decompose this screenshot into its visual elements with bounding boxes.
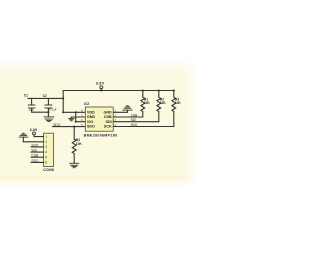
svg-text:SDI: SDI	[106, 120, 112, 124]
svg-text:1: 1	[45, 135, 47, 139]
power symbol 3.3V P1	[96, 81, 105, 91]
wire connector pin4	[31, 151, 44, 153]
power symbol 3.3V P2	[30, 128, 38, 137]
junction VDD tie	[75, 111, 77, 113]
junction rail R2	[158, 89, 160, 91]
wire connector pin5	[31, 156, 44, 158]
junction VIO tie	[75, 121, 77, 123]
wire GND right	[113, 111, 127, 113]
svg-text:C1: C1	[24, 94, 28, 98]
svg-text:SDO: SDO	[53, 123, 61, 127]
svg-text:4: 4	[45, 150, 47, 154]
junction rail/cap-rail	[62, 97, 64, 99]
svg-text:10K: 10K	[175, 101, 182, 105]
wire connector pin2	[23, 141, 43, 143]
svg-text:SDO: SDO	[87, 125, 95, 129]
wire 3.3V rail	[63, 90, 174, 92]
junction SDO/R4	[73, 126, 75, 128]
resistor R4	[72, 127, 82, 164]
svg-text:GND: GND	[87, 115, 96, 119]
wire connector pin1	[34, 136, 44, 138]
svg-text:CSB: CSB	[131, 113, 139, 117]
wire VIO	[76, 121, 86, 123]
svg-text:SCK: SCK	[104, 125, 112, 129]
svg-text:VDD: VDD	[87, 111, 95, 115]
wire GND stub left	[71, 116, 85, 118]
IC IC2 BME280/BMP280	[84, 102, 118, 137]
svg-text:SDO: SDO	[31, 159, 39, 163]
svg-text:BME280/BMP280: BME280/BMP280	[84, 133, 118, 137]
capacitor C2	[43, 94, 57, 112]
ground below capacitors	[44, 112, 55, 121]
junction cap bottom	[47, 111, 49, 113]
svg-text:SCK: SCK	[131, 123, 139, 127]
junction on rail at power tap	[100, 89, 102, 91]
resistor R2	[157, 91, 167, 122]
wire capacitor top rail	[28, 97, 63, 99]
svg-text:5: 5	[45, 155, 47, 159]
svg-text:0.1uF: 0.1uF	[49, 107, 57, 111]
svg-text:SDI: SDI	[131, 118, 137, 122]
ground at GND pin	[68, 117, 74, 121]
svg-text:IC2: IC2	[84, 102, 89, 106]
svg-text:10K: 10K	[144, 101, 151, 105]
wire VDD	[63, 111, 85, 113]
svg-text:3.3V: 3.3V	[30, 128, 38, 132]
wire vertical rail to VDD	[62, 91, 64, 113]
svg-text:CSB: CSB	[31, 154, 39, 158]
svg-text:CSB: CSB	[104, 115, 112, 119]
wire VDD-VIO tie	[75, 112, 77, 121]
ground at connector (pointing up)	[19, 133, 28, 142]
ground below R4	[69, 163, 79, 167]
svg-text:VIO: VIO	[87, 120, 93, 124]
wire CSB	[113, 116, 143, 118]
wire connector pin6	[31, 161, 44, 163]
wire capacitor bottom rail	[32, 111, 49, 113]
svg-text:2: 2	[45, 140, 47, 144]
resistor R1	[141, 91, 151, 118]
svg-text:C2: C2	[43, 94, 47, 98]
svg-text:SDI: SDI	[31, 149, 37, 153]
junction rail R3	[173, 89, 175, 91]
capacitor C1	[24, 94, 35, 113]
wire SDI	[113, 121, 159, 123]
junction VDD corner	[62, 111, 64, 113]
ground right (pointing up)	[123, 106, 133, 113]
connector CON6	[43, 133, 54, 172]
resistor R3	[172, 91, 182, 127]
wire SDO	[52, 126, 85, 128]
svg-text:GND: GND	[103, 111, 112, 115]
svg-text:10K: 10K	[76, 142, 83, 146]
svg-text:SCK: SCK	[31, 143, 39, 147]
wire connector pin3	[31, 146, 44, 148]
svg-text:1uF: 1uF	[29, 108, 34, 112]
junction rail R1	[142, 89, 144, 91]
wire SCK	[113, 126, 174, 128]
svg-text:10K: 10K	[160, 101, 167, 105]
svg-text:CON6: CON6	[43, 168, 54, 172]
svg-text:6: 6	[45, 161, 47, 165]
svg-text:3.3V: 3.3V	[96, 81, 105, 86]
svg-text:3: 3	[45, 145, 47, 149]
